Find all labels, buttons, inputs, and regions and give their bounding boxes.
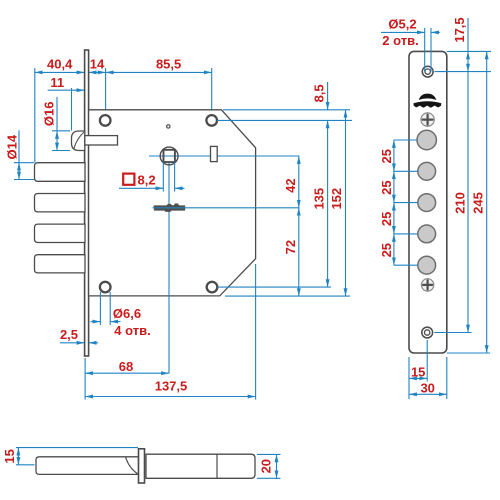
screw hole bottom-right (207, 282, 218, 293)
svg-text:14: 14 (90, 57, 105, 72)
screw hole top-right (206, 115, 217, 126)
phillips screw bottom (421, 279, 433, 291)
wire: extension at x=71.5 down to latch (71, 88, 73, 131)
faceplate (edge view, tall thin plate) (85, 50, 89, 356)
svg-text:152: 152 (329, 188, 344, 210)
bolt hole 1 (gray) (417, 130, 436, 149)
wire: top dim extension at x=105.6 down to screw hole (105, 68, 107, 114)
label square 8,2 symbol (123, 174, 134, 185)
wire: top dim extension line at x=34.8 (34, 68, 36, 163)
svg-text:Ø6,6: Ø6,6 (113, 306, 141, 321)
wire: O6,6 hole extension lines (99, 292, 101, 325)
latch bevel line (74, 132, 84, 149)
bolt hole 4 (gray) (418, 225, 436, 243)
svg-text:11: 11 (50, 75, 64, 90)
wire: body-bottom extension to right (225, 295, 350, 297)
wire: key horizontal centerline (153, 207, 300, 209)
dimension 2,5 arrows at faceplate bottom (60, 342, 85, 344)
screw hole top-left (100, 115, 111, 126)
dimension chain 25 x4 vertical (393, 140, 395, 171)
faceplate side bar (139, 449, 145, 483)
bolt 3 (35, 224, 86, 242)
dimension 11 line (48, 89, 85, 91)
bolt 4 (35, 255, 86, 273)
svg-text:4 отв.: 4 отв. (114, 323, 150, 338)
dimension O6,6 arrows (91, 321, 101, 323)
lock body outline with chamfered right corners (89, 110, 256, 296)
svg-text:25: 25 (379, 180, 394, 194)
dimension 85,5 line (106, 71, 212, 73)
keyway slot rectangle (211, 146, 218, 161)
svg-text:2,5: 2,5 (60, 327, 78, 342)
bolt hole 2 (gray) (418, 162, 436, 180)
dimension O5,2 arrows (381, 31, 425, 33)
wire: top dim extension at x=211.7 down to screw hole (211, 68, 213, 110)
dimension 42 vertical (298, 156, 300, 208)
body inner line (216, 454, 218, 478)
wire: plate bottom extension right (447, 352, 490, 354)
latch stem rectangle (85, 136, 118, 145)
dimension 137,5 (85, 396, 256, 398)
dimension 14 line (89, 71, 106, 73)
dimension 17,5 (467, 18, 469, 51)
svg-text:137,5: 137,5 (155, 379, 188, 394)
wire: plate top extension right (447, 50, 491, 52)
svg-text:Ø14: Ø14 (4, 134, 19, 159)
dimension 8,5 top arrow (327, 82, 329, 110)
svg-text:8,2: 8,2 (138, 172, 156, 187)
dimension 245 (486, 51, 488, 353)
svg-text:68: 68 (119, 359, 133, 374)
wire: bottom hole centre extension right (434, 332, 471, 334)
svg-text:210: 210 (453, 192, 468, 214)
phillips screw top (421, 113, 434, 126)
maker logo (black emblem) (419, 94, 437, 100)
svg-text:15: 15 (2, 449, 17, 463)
dimension 72 vertical (298, 208, 300, 296)
dimension 210 (467, 72, 469, 333)
top screw hole O5,2 (double ring) (422, 66, 433, 77)
svg-text:17,5: 17,5 (452, 17, 467, 42)
svg-text:Ø5,2: Ø5,2 (388, 17, 416, 32)
dimension 15 (bottom view) (17, 448, 19, 465)
wire: top hole centre extension right (435, 71, 492, 73)
svg-text:85,5: 85,5 (156, 56, 181, 71)
dimension O14 vertical line with arrows (18, 130, 20, 162)
svg-text:Ø16: Ø16 (41, 102, 56, 127)
dimension 8,2 arrows (119, 187, 163, 189)
svg-text:25: 25 (379, 243, 394, 257)
dimension 152 vertical (345, 110, 347, 296)
svg-text:72: 72 (283, 240, 298, 254)
faceplate front plate (409, 51, 447, 353)
bolt hole 5 (gray) (418, 256, 436, 274)
svg-text:15: 15 (411, 364, 425, 379)
wire: 15 extension lines (bottom view) (16, 447, 138, 449)
wire: O16 extension lines (52, 130, 70, 132)
wire: bottom screw-centre extension (218, 286, 332, 288)
wire: body right edge extension down (255, 264, 257, 400)
wire: screw-centre extension to right (217, 119, 352, 121)
latch bolt head (rounded, through faceplate) (72, 131, 85, 151)
svg-text:42: 42 (283, 178, 298, 192)
wire: bottom hole centre extension down (426, 340, 428, 382)
wire: square 8.2 extension lines (162, 162, 164, 192)
dimension 135 vertical (327, 120, 329, 287)
wire: spindle vertical centerline down to 68-dim (168, 162, 170, 373)
wire: plate bottom corners extensions down (408, 357, 410, 399)
wire: faceplate bottom extension down (84, 358, 86, 400)
small pin hole (167, 125, 170, 128)
spindle outer circle (160, 147, 178, 165)
bolt hole 3 (gray) (418, 194, 436, 212)
lock body side view (146, 454, 255, 478)
dimension 30 (plate) (409, 393, 447, 395)
svg-text:25: 25 (379, 212, 394, 226)
svg-text:245: 245 (471, 192, 486, 214)
svg-text:2 отв.: 2 отв. (382, 33, 418, 48)
key profile (lever key cross-section) (154, 204, 186, 212)
bottom screw hole O5,2 (double ring) (422, 327, 433, 338)
spindle square hole 8.2 (164, 150, 175, 162)
bolt side view (36, 457, 139, 475)
svg-text:20: 20 (259, 459, 274, 473)
svg-text:25: 25 (379, 149, 394, 163)
dimension 40,4 line (35, 71, 85, 73)
svg-text:8,5: 8,5 (312, 84, 327, 102)
dimension O16 vertical line with arrows (56, 97, 58, 131)
wire: spindle horizontal centerline (149, 155, 299, 157)
svg-text:135: 135 (312, 188, 327, 210)
svg-text:40,4: 40,4 (47, 56, 73, 71)
dimension 20 (bottom view) (276, 454, 278, 478)
dimension 68 (85, 372, 169, 374)
wire: connectors from chain to holes (394, 139, 417, 141)
screw hole bottom-left (100, 282, 111, 293)
wire: 20 extension lines (bottom view) (257, 453, 281, 455)
wire: O5,2 extension lines down to hole (424, 28, 426, 72)
wire: body-top extension to right (223, 109, 350, 111)
bolt bevel curve (126, 457, 139, 474)
dimension 15 (plate) (409, 377, 427, 379)
wire: O14 extension lines (14, 162, 34, 164)
bolt 2 (35, 194, 86, 212)
svg-text:30: 30 (420, 381, 434, 396)
bolt 1 (35, 163, 86, 182)
